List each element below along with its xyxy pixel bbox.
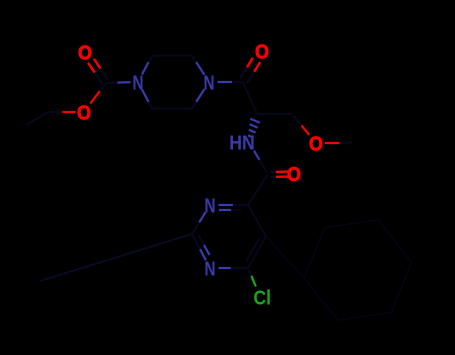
bond amide C - C alpha: [243, 82, 257, 114]
wire C2 - left substituent: [40, 234, 192, 281]
svg-text:N: N: [133, 72, 144, 94]
svg-text:O: O: [287, 164, 301, 186]
piperazine top edge C-C: [152, 55, 192, 57]
svg-text:O: O: [78, 42, 92, 64]
svg-text:Cl: Cl: [254, 287, 272, 309]
svg-text:HN: HN: [229, 133, 255, 155]
phenyl ring bottom right: [304, 228, 325, 278]
bond O ether - CH3: [325, 142, 340, 144]
svg-text:O: O: [77, 102, 91, 124]
double bond C=O carbamate: [95, 73, 103, 85]
svg-text:N: N: [204, 72, 215, 94]
pyrimidine double bond C6=N1 outer: [233, 204, 248, 206]
piperazine bottom edge C-C: [152, 108, 192, 110]
bond C5 - phenyl ipso: [266, 237, 304, 279]
pyrimidine double bond C6=N1 inner: [231, 209, 241, 211]
svg-text:O: O: [255, 41, 269, 63]
piperazine bond N1-C northwest: [142, 62, 149, 74]
bond N4 - amide carbonyl C: [218, 81, 233, 83]
double bond C=O amide 1: [240, 67, 247, 79]
pyrimidine double bond C4=C5 inner: [246, 239, 259, 262]
bond C alpha - CH2: [257, 113, 292, 115]
svg-text:O: O: [309, 133, 323, 155]
bond O ester - carbamate C: [90, 91, 100, 104]
bond NH - amide carbonyl C 2: [254, 151, 260, 160]
bond carbamate C - N1 piperazine: [107, 81, 118, 84]
hashed wedge C alpha - NH: [250, 119, 260, 123]
pyrimidine double bond C4=C5 outer: [248, 237, 266, 269]
bond amide C 2 - pyrimidine C6: [248, 174, 268, 205]
double bond C=O amide 2: [270, 171, 276, 174]
svg-text:N: N: [205, 258, 216, 280]
svg-text:N: N: [205, 195, 216, 217]
pyrimidine bond N3-C4: [219, 267, 231, 269]
piperazine bond N1-C southwest: [142, 90, 149, 102]
wire ethyl CH3-CH2: [26, 112, 48, 125]
bond C4-Cl: [249, 270, 252, 276]
pyrimidine bond C5-C6: [248, 205, 266, 237]
pyrimidine bond N1-C2: [199, 212, 205, 222]
pyrimidine double bond C2=N3 inner: [199, 235, 205, 245]
bond CH2 - O ether: [293, 116, 301, 126]
bond CH2-O ester: [48, 111, 62, 113]
piperazine bond N4-C southeast: [196, 89, 204, 102]
pyrimidine double bond C2=N3 outer: [192, 234, 200, 249]
piperazine bond N4-C northeast: [196, 62, 204, 75]
